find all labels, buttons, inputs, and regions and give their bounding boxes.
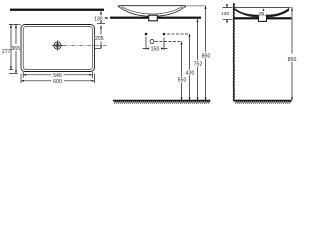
svg-text:600: 600	[53, 79, 62, 85]
rim extension line	[187, 5, 206, 7]
plan view: basin outer rim rect	[21, 25, 95, 72]
mini dimension drain	[263, 8, 265, 11]
floor hatching (right)	[235, 101, 291, 104]
svg-text:430: 430	[186, 71, 195, 77]
dimension 850 (right)	[289, 7, 293, 9]
dimension 850 (middle)	[205, 6, 207, 100]
svg-text:130: 130	[94, 16, 103, 22]
svg-text:365: 365	[11, 46, 20, 52]
svg-text:850: 850	[288, 57, 297, 63]
front view: rim line	[118, 6, 186, 7]
template: left fixing dot	[145, 33, 148, 36]
template: drain circle	[150, 40, 154, 44]
floor line (right)	[233, 100, 292, 102]
dimension 277	[9, 25, 13, 70]
front view: drain fitting	[149, 15, 158, 21]
svg-text:120: 120	[221, 11, 229, 17]
section view: countertop bar	[234, 17, 291, 19]
dimension 205	[95, 26, 101, 49]
dimension 546	[23, 72, 92, 78]
section view: bowl left wall	[234, 8, 258, 17]
svg-text:850: 850	[202, 54, 211, 60]
template: right fixing dot	[163, 33, 166, 36]
svg-text:85: 85	[259, 11, 265, 16]
dimension 120	[223, 4, 233, 23]
svg-text:752: 752	[194, 62, 203, 68]
svg-text:550: 550	[178, 78, 187, 84]
template: dashed centerline lower	[155, 41, 182, 43]
floor line (middle)	[113, 100, 210, 102]
front view: outer bowl profile	[118, 6, 185, 16]
svg-text:205: 205	[95, 36, 104, 42]
plan view: wall bar	[10, 9, 104, 11]
front view: inner bowl curve	[122, 7, 183, 14]
template: dashed centerline upper	[167, 33, 190, 35]
section view: wall hatching	[233, 4, 235, 99]
extension tick top-left	[9, 24, 21, 26]
dimension 600	[21, 74, 95, 84]
section view: rim line	[234, 8, 289, 12]
section view: wall line	[233, 3, 235, 100]
dimension 752	[197, 19, 199, 100]
section view: bowl right wall	[266, 8, 288, 17]
svg-text:150: 150	[151, 47, 160, 53]
front view: countertop bar	[110, 17, 201, 19]
dimension 550	[181, 42, 183, 101]
plan view: basin inner rim rect	[23, 27, 92, 70]
dimension 365	[9, 25, 18, 74]
section view: drain fitting	[259, 15, 267, 21]
plan view: drain centerline	[63, 45, 107, 47]
plan view: drain symbol	[52, 40, 63, 51]
dimension 430	[189, 34, 191, 100]
section view: bowl underside	[235, 10, 289, 18]
svg-text:277: 277	[2, 49, 11, 55]
template: cross mark	[163, 38, 165, 46]
dimension 150	[143, 37, 168, 51]
arrow marker right of 130	[104, 17, 108, 19]
floor hatching (middle)	[114, 101, 210, 104]
dimension 130	[97, 11, 105, 23]
